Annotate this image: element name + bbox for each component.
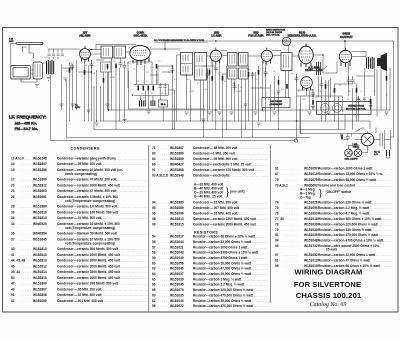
svg-text:W151070: W151070	[304, 178, 318, 182]
additional grounds	[60, 98, 389, 122]
svg-text:..........................: ..........................	[236, 201, 268, 205]
wire drop 19	[209, 68, 211, 110]
capacitor C37	[164, 83, 167, 90]
svg-text:Resistor—carbon 220 Ohms ½ wat: Resistor—carbon 220 Ohms ½ watt	[318, 201, 372, 205]
power cord and plug P1	[374, 130, 391, 149]
ratio detector output box	[262, 98, 290, 108]
svg-text:W040554: W040554	[33, 232, 47, 236]
svg-text:........: ........	[161, 277, 175, 281]
svg-text:67: 67	[275, 172, 279, 176]
svg-text:........: ........	[161, 261, 175, 265]
svg-text:Resistor—carbon 68 Ohms ± 10%: Resistor—carbon 68 Ohms ± 10% ½ watt	[193, 235, 256, 239]
tube V4 3rd I.F. limiter	[261, 48, 272, 65]
svg-text:..........: ..........	[378, 172, 390, 176]
svg-text:..............: ..............	[250, 168, 267, 172]
IF transformer T2	[101, 46, 113, 58]
svg-text:.............: .............	[252, 217, 268, 221]
svg-text:Condenser—electrolytic 3 Mfd.: Condenser—electrolytic 3 Mfd. 25 volt	[193, 163, 252, 167]
B+ feed wire to output stage	[345, 41, 394, 137]
svg-text:W151645: W151645	[33, 237, 47, 241]
svg-text:Resistor—carbon 4.7 Meg. ½ wat: Resistor—carbon 4.7 Meg. ½ watt	[318, 211, 370, 215]
on-off switch S2	[356, 128, 365, 131]
svg-text:....................: ....................	[368, 228, 393, 232]
svg-text:99: 99	[152, 223, 156, 227]
svg-text:....................: ....................	[368, 206, 393, 210]
svg-text:...........................: ...........................	[114, 210, 147, 214]
svg-text:..........................: ..........................	[116, 259, 148, 263]
grid resistor R69	[84, 70, 86, 75]
svg-text:........: ........	[161, 206, 175, 210]
grounds	[35, 78, 373, 126]
svg-text:Resistor—carbon 1000 Ohms 1 wa: Resistor—carbon 1000 Ohms 1 watt	[318, 166, 373, 170]
svg-text:...........................: ...........................	[114, 178, 147, 182]
wire drop 31	[296, 74, 298, 141]
svg-text:Condenser—.007 Mfd. 400 volt: Condenser—.007 Mfd. 400 volt	[193, 206, 240, 210]
bus wire 5 (to terminal)	[101, 86, 371, 129]
svg-text:34: 34	[11, 222, 15, 226]
svg-text:D—40 Mfd. 25 volt: D—40 Mfd. 25 volt	[194, 194, 223, 198]
svg-text:58: 58	[152, 251, 156, 255]
svg-text:Resistor—carbon 22,000 Ohms ½: Resistor—carbon 22,000 Ohms ½ watt	[193, 240, 252, 244]
svg-text:100K: 100K	[236, 91, 242, 93]
switch wafer rear view	[333, 104, 342, 113]
resistor R58	[222, 76, 224, 81]
resistor R29	[153, 86, 155, 91]
svg-text:W151035: W151035	[304, 233, 318, 237]
wire V1 plate to T2	[90, 45, 136, 55]
svg-text:........: ........	[20, 216, 34, 220]
oscillator section wires	[140, 84, 174, 130]
wire drop 17	[190, 81, 192, 122]
screen feed stubs	[62, 60, 172, 75]
wire drop 8	[124, 71, 126, 122]
wire drop 40	[370, 96, 372, 110]
svg-text:117 V.: 117 V.	[374, 152, 380, 154]
cathode resistor R71	[356, 88, 358, 93]
wire drop 3	[91, 60, 93, 121]
svg-text:..............................: .......................................	[100, 293, 148, 297]
svg-text:VIEWED FROM: VIEWED FROM	[348, 106, 364, 108]
wire drop 14	[172, 66, 174, 130]
wire drop 35	[325, 80, 327, 121]
svg-text:Condenser—ceramic 470 Mmfd. 50: Condenser—ceramic 470 Mmfd. 500 volt	[193, 168, 255, 172]
svg-text:94: 94	[152, 201, 156, 205]
svg-text:W152813: W152813	[33, 259, 47, 263]
svg-text:22K: 22K	[150, 67, 154, 69]
svg-text:...........................: ...........................	[114, 247, 147, 251]
svg-text:.................: .................	[247, 267, 268, 271]
svg-text:Condenser—ceramic 330 Mmfd. 50: Condenser—ceramic 330 Mmfd. 500 volt	[57, 282, 119, 286]
svg-text:........: ........	[284, 258, 298, 262]
svg-text:98: 98	[152, 217, 156, 221]
svg-text:54: 54	[152, 235, 156, 239]
svg-text:97: 97	[275, 253, 279, 257]
svg-text:Condenser—.01 Mfd. 200 volt: Condenser—.01 Mfd. 200 volt	[193, 201, 238, 205]
svg-text:DET. ON A-M.: DET. ON A-M.	[266, 33, 280, 36]
svg-text:........: ........	[161, 304, 175, 308]
svg-text:.....................: .....................	[366, 258, 392, 262]
svg-text:68: 68	[152, 288, 156, 292]
svg-text:W152806: W152806	[33, 293, 47, 297]
svg-text:........: ........	[20, 287, 34, 291]
svg-text:W151814: W151814	[33, 270, 47, 274]
svg-text:59: 59	[152, 256, 156, 260]
svg-text:CONDENSERS: CONDENSERS	[70, 147, 99, 151]
svg-text:Condenser—.05 Mfd. 200 volt: Condenser—.05 Mfd. 200 volt	[57, 162, 102, 166]
wire drop 7	[120, 58, 122, 61]
svg-text:70: 70	[275, 178, 279, 182]
parts list column 2 rows (condensers cont.)	[152, 146, 269, 178]
capacitor C41	[295, 74, 299, 83]
AM loop antenna L1	[11, 66, 31, 80]
svg-text:..........: ..........	[378, 239, 390, 243]
svg-text:30: 30	[11, 210, 15, 214]
svg-text:........: ........	[161, 168, 175, 172]
svg-text:..............................: .......................................	[100, 287, 148, 291]
svg-text:23: 23	[11, 189, 15, 193]
svg-text:Condenser—ceramic 2000 Mmfd. 4: Condenser—ceramic 2000 Mmfd. 450 volt	[57, 264, 121, 268]
resistor R55	[156, 64, 158, 69]
svg-text:W151810: W151810	[33, 210, 47, 214]
svg-text:79: 79	[275, 228, 279, 232]
svg-text:...............: ...............	[374, 222, 393, 226]
svg-text:........: ........	[284, 239, 298, 243]
svg-text:2.2M: 2.2M	[189, 91, 194, 93]
AM IF transformer T4	[195, 53, 207, 81]
svg-text:}: }	[318, 188, 323, 199]
svg-text:W151080: W151080	[33, 299, 47, 303]
i.f. stage interconnect wires	[204, 61, 286, 137]
tube V2 converter osc-mod	[130, 45, 150, 65]
diode load box	[281, 53, 292, 71]
svg-text:W151039: W151039	[304, 222, 318, 226]
svg-text:........: ........	[284, 201, 298, 205]
svg-text:W040525: W040525	[33, 222, 47, 226]
svg-text:................: ................	[372, 253, 392, 257]
svg-text:........: ........	[284, 178, 298, 182]
svg-text:........: ........	[161, 223, 175, 227]
parts list column 1 rows	[11, 156, 149, 302]
svg-text:........: ........	[161, 157, 175, 161]
wire drop 22	[231, 79, 233, 110]
svg-text:........: ........	[161, 245, 175, 249]
svg-text:Resistor—carbon 560 Ohms ± 10%: Resistor—carbon 560 Ohms ± 10% ½ watt	[318, 217, 382, 221]
volume control R73 (dark)	[317, 62, 321, 76]
svg-text:W150248: W150248	[33, 156, 47, 160]
svg-text:69: 69	[152, 293, 156, 297]
component value labels	[31, 57, 388, 101]
AM-FM band switch box	[317, 102, 372, 115]
svg-text:15: 15	[11, 168, 15, 172]
output transformer T6 (dark)	[367, 57, 375, 69]
wire drop 18	[200, 80, 202, 121]
column separator rule 2	[269, 145, 271, 303]
svg-text:..........................: ..........................	[116, 264, 148, 268]
tube V6 audio output 50B5	[339, 48, 351, 67]
svg-text:76: 76	[275, 211, 279, 215]
wire drop 11	[148, 91, 150, 110]
svg-text:........: ........	[20, 183, 34, 187]
wire V6 plate to T6	[351, 52, 381, 117]
cathode resistor R70	[103, 78, 105, 83]
svg-text:28: 28	[11, 205, 15, 209]
svg-text:47K: 47K	[268, 99, 272, 101]
svg-text:37: 37	[11, 237, 15, 241]
svg-text:.......................: .......................	[239, 277, 267, 281]
svg-text:........: ........	[20, 247, 34, 251]
svg-text:60: 60	[152, 261, 156, 265]
resistor R28	[148, 86, 150, 91]
ratio detector transformer	[282, 37, 290, 45]
B+ bus wire 2	[51, 75, 295, 141]
svg-text:........: ........	[20, 189, 34, 193]
svg-text:........: ........	[20, 162, 34, 166]
capacitor C32	[251, 72, 255, 79]
junction dots (feed)	[72, 40, 346, 73]
svg-text:........: ........	[161, 212, 175, 216]
svg-text:Volume and tone control: Volume and tone control	[318, 184, 355, 188]
resistor R74	[325, 84, 327, 89]
svg-text:........: ........	[161, 267, 175, 271]
wire drop 36	[330, 78, 332, 98]
svg-text:...................: ...................	[369, 166, 392, 170]
dial lamp PL3 (dark)	[345, 149, 353, 157]
wire drop 16	[186, 75, 188, 110]
svg-text:64: 64	[152, 272, 156, 276]
svg-text:Condenser—ceramic 47 Mmfd. 200: Condenser—ceramic 47 Mmfd. 200 volt.	[57, 178, 117, 182]
svg-text:78: 78	[275, 222, 279, 226]
svg-text:DEMODULATOR–A.F.C.: DEMODULATOR–A.F.C.	[288, 34, 317, 38]
svg-text:I.F. FREQUENCY:: I.F. FREQUENCY:	[9, 114, 47, 119]
svg-text:....................: ....................	[368, 201, 393, 205]
svg-text:........: ........	[161, 240, 175, 244]
svg-text:.................: .................	[247, 261, 268, 265]
grid resistor R68	[69, 68, 71, 73]
svg-text:95: 95	[275, 244, 279, 248]
line filter resistor R96	[341, 135, 343, 140]
svg-text:1M: 1M	[302, 99, 305, 101]
svg-text:F-M TUNER: F-M TUNER	[270, 101, 282, 103]
svg-text:W151052: W151052	[304, 253, 318, 257]
wire drop 26	[258, 66, 260, 121]
svg-text:..............................: ......................................	[102, 299, 149, 303]
svg-text:...................: ...................	[244, 256, 267, 260]
svg-text:96: 96	[152, 212, 156, 216]
svg-text:Condenser—ceramic 3300 Mmfd. 4: Condenser—ceramic 3300 Mmfd. 450 volt	[57, 270, 121, 274]
capacitor C15	[123, 61, 127, 71]
svg-text:105V: 105V	[75, 107, 81, 109]
grid resistor R66	[211, 76, 213, 81]
resistor R60	[258, 70, 260, 75]
padder trimmer C34 (dark)	[140, 100, 146, 107]
svg-text:........: ........	[161, 217, 175, 221]
wire drop 37	[342, 96, 344, 112]
capacitor C23	[171, 66, 175, 74]
svg-text:47: 47	[11, 282, 15, 286]
svg-text:Condenser—ceramic 2000 Mmfd. 4: Condenser—ceramic 2000 Mmfd. 450 volt	[57, 259, 121, 263]
wire drop 2	[79, 49, 81, 53]
svg-text:W152812: W152812	[33, 183, 47, 187]
svg-text:Condenser—.05 Mfd. 200 volt: Condenser—.05 Mfd. 200 volt	[57, 287, 102, 291]
wire drop 15	[177, 55, 181, 121]
dipole feed wire	[23, 44, 34, 58]
heater string wire	[300, 109, 368, 140]
svg-text:..............: ..............	[250, 235, 267, 239]
svg-text:........: ........	[284, 222, 298, 226]
capacitor C30	[214, 65, 218, 73]
svg-text:Resistor—carbon 39,000 Ohms ½: Resistor—carbon 39,000 Ohms ½ watt	[193, 272, 252, 276]
svg-text:17: 17	[11, 178, 15, 182]
svg-text:........: ........	[20, 270, 34, 274]
svg-text:........: ........	[20, 205, 34, 209]
svg-text:W151026: W151026	[304, 201, 318, 205]
svg-text:46: 46	[11, 264, 15, 268]
lamp string wires	[349, 143, 368, 153]
svg-text:.................: .................	[247, 240, 268, 244]
wire V5 to V6 grid	[313, 55, 337, 73]
IF transformer T5 primary	[228, 53, 238, 67]
svg-text:W151093: W151093	[304, 211, 318, 215]
svg-text:Resistor—carbon 330 Ohms ½ wat: Resistor—carbon 330 Ohms ½ watt	[318, 228, 372, 232]
rectifier feed wire	[375, 128, 377, 134]
wire drop 6	[115, 68, 117, 129]
svg-text:W151057: W151057	[304, 166, 318, 170]
FM dipole antenna T-bar	[16, 42, 43, 44]
svg-text:volt (Temperature compensating: volt (Temperature compensating)	[65, 199, 115, 203]
bus terminal eyelet	[294, 139, 297, 142]
IF transformer T5 secondary	[228, 68, 238, 79]
svg-text:49: 49	[11, 287, 15, 291]
wire drop 20	[215, 65, 217, 130]
svg-text:C—Tap: C—Tap	[300, 195, 311, 199]
FM IF transformer T3	[181, 53, 193, 76]
volume control sub-block with brace	[300, 188, 351, 200]
svg-text:Resistor—carbon 470,000 Ohms ½: Resistor—carbon 470,000 Ohms ½ watt	[318, 233, 379, 237]
svg-text:55: 55	[152, 240, 156, 244]
svg-text:Resistor—carbon 15,000 Ohms ±: Resistor—carbon 15,000 Ohms ± 10% ½ w.	[318, 172, 383, 176]
svg-text:........: ........	[20, 293, 34, 297]
wire T5 to V4	[248, 55, 261, 57]
resistor R57	[209, 70, 211, 75]
svg-text:Resistor—carbon 3300 Ohms ± 10: Resistor—carbon 3300 Ohms ± 10% ½ watt	[193, 251, 259, 255]
svg-text:........: ........	[161, 288, 175, 292]
capacitor C17	[90, 60, 94, 69]
svg-text:RECT.: RECT.	[353, 147, 360, 149]
svg-text:.........................: .........................	[238, 206, 269, 210]
svg-text:..........................: ..........................	[116, 276, 148, 280]
svg-text:........: ........	[161, 201, 175, 205]
osc section rails	[128, 85, 205, 110]
grid resistor R65	[286, 84, 288, 89]
svg-text:........: ........	[20, 195, 34, 199]
svg-text:12A: 12A	[66, 70, 70, 73]
svg-text:W151681: W151681	[33, 195, 47, 199]
svg-text:ramic compensating): ramic compensating)	[65, 172, 97, 176]
svg-text:74: 74	[275, 201, 279, 205]
svg-text:F-M I.F. AMP.: F-M I.F. AMP.	[248, 34, 264, 38]
svg-text:W152807: W152807	[33, 287, 47, 291]
electrolytic can values sub-block with brace	[194, 182, 245, 198]
dial lamp PL4 (dark)	[354, 149, 362, 157]
svg-text:Condenser—ceramic 2000 Mmfd. 4: Condenser—ceramic 2000 Mmfd. 450 volt	[57, 183, 121, 187]
wire V3 plate to T5	[221, 51, 228, 56]
svg-text:AM—455 Kc.: AM—455 Kc.	[15, 122, 37, 126]
svg-text:W151019: W151019	[304, 172, 318, 176]
svg-text:W151600: W151600	[33, 189, 47, 193]
svg-text:........: ........	[20, 156, 34, 160]
svg-text:Condenser—ceramic 2000 Mmfd. 4: Condenser—ceramic 2000 Mmfd. 450 volt	[57, 253, 121, 257]
svg-text:..............................: .......................................	[100, 216, 148, 220]
svg-text:98: 98	[275, 264, 279, 268]
svg-text:62: 62	[152, 299, 156, 303]
svg-text:Resistor—carbon 39,000 Ohms ½: Resistor—carbon 39,000 Ohms ½ watt	[193, 299, 252, 303]
resistor R15	[115, 64, 117, 69]
wire V4 plate	[272, 51, 281, 56]
svg-text:........: ........	[20, 264, 34, 268]
svg-text:86: 86	[152, 163, 156, 167]
svg-text:95: 95	[152, 206, 156, 210]
svg-text:..........................: ..........................	[116, 183, 148, 187]
svg-text:........: ........	[161, 235, 175, 239]
svg-text:71: 71	[152, 146, 156, 150]
wire drop 23	[238, 84, 240, 121]
antenna left lead wire	[11, 43, 16, 74]
screen resistor R64	[334, 88, 336, 93]
parts list column 2 resistor rows	[152, 235, 269, 309]
resistor R54	[107, 64, 109, 69]
svg-text:OUTPUT: OUTPUT	[340, 35, 353, 39]
wire to V5	[292, 55, 299, 57]
svg-text:26: 26	[11, 195, 15, 199]
svg-text:........: ........	[20, 168, 34, 172]
svg-text:14: 14	[11, 162, 15, 166]
audio stage wires	[301, 63, 387, 134]
B- bus wire (outermost)	[109, 68, 391, 110]
svg-text:...............: ...............	[249, 304, 268, 308]
svg-text:W151095: W151095	[304, 206, 318, 210]
svg-text:........: ........	[20, 253, 34, 257]
svg-text:Condenser—ceramic 2000 Mmfd. 4: Condenser—ceramic 2000 Mmfd. 450 volt	[57, 276, 121, 280]
wire drop 32	[297, 91, 343, 96]
svg-text:........: ........	[284, 233, 298, 237]
bypass capacitor C46	[264, 68, 268, 77]
svg-text:Condenser—.02 Mfd. 400 volt: Condenser—.02 Mfd. 400 volt	[57, 293, 102, 297]
svg-text:...............: ...............	[249, 288, 268, 292]
resistor R77	[312, 100, 314, 105]
wire drop 5	[107, 72, 109, 110]
svg-text:Condenser—.05 Mfd. 400 volt: Condenser—.05 Mfd. 400 volt	[193, 157, 238, 161]
svg-text:W151048: W151048	[304, 239, 318, 243]
svg-text:........: ........	[161, 272, 175, 276]
svg-text:........: ........	[284, 166, 298, 170]
svg-text:...........: ...........	[253, 251, 267, 255]
wire drop 29	[278, 76, 280, 130]
svg-text:Resistor—carbon 1000 Ohms 1 wa: Resistor—carbon 1000 Ohms 1 watt	[193, 245, 248, 249]
svg-text:...............: ...............	[249, 293, 268, 297]
svg-text:50: 50	[11, 276, 15, 280]
bus wire 4	[94, 86, 345, 130]
svg-text:........: ........	[161, 293, 175, 297]
wire drop 25	[252, 72, 254, 137]
svg-text:Condenser—.01 Mfd. 400 volt: Condenser—.01 Mfd. 400 volt	[193, 212, 238, 216]
svg-text:65: 65	[152, 277, 156, 281]
svg-text:80: 80	[152, 152, 156, 156]
svg-text:........: ........	[284, 253, 298, 257]
wire gang to V1 grid	[43, 49, 80, 63]
column separator rule 1	[148, 145, 150, 312]
wire drop 28	[270, 84, 272, 121]
svg-text:........: ........	[161, 146, 175, 150]
